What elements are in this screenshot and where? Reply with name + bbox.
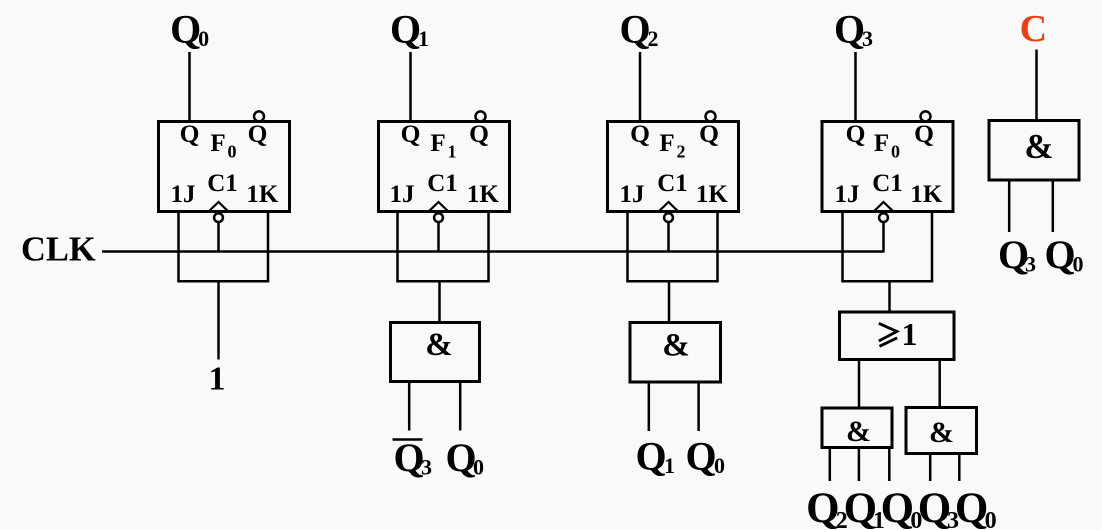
svg-text:1: 1: [418, 26, 429, 51]
svg-text:3: 3: [862, 26, 873, 51]
flip-flop F0 (JK): [822, 119, 953, 212]
svg-text:1: 1: [448, 142, 457, 162]
AND gate G1 (feeds F1): [391, 323, 480, 382]
svg-text:0: 0: [473, 455, 484, 480]
wire J-K tie bar of F1: [396, 280, 490, 283]
svg-text:1J: 1J: [835, 181, 860, 208]
wire G2 input Q0: [697, 382, 700, 431]
wire 1K of F2 down: [716, 212, 719, 282]
svg-text:0: 0: [985, 508, 997, 530]
wire 1K of F0 down: [931, 212, 934, 282]
svg-text:1: 1: [902, 316, 918, 352]
node Q0 label (bottom input): [881, 485, 923, 530]
svg-text:0: 0: [198, 26, 209, 51]
clock inversion bubble of F2: [664, 213, 673, 222]
clock inversion bubble of F0: [214, 213, 223, 222]
svg-text:1: 1: [209, 361, 226, 398]
node Q1: [390, 7, 429, 52]
wire CLK bus: [102, 250, 885, 253]
svg-text:0: 0: [714, 453, 725, 478]
wire Q3 output to flip-flop F0: [854, 52, 857, 122]
flip-flop F0 (JK): [159, 119, 290, 212]
node Q3 label (bottom input): [918, 485, 959, 530]
svg-text:C1: C1: [872, 170, 903, 197]
svg-text:1K: 1K: [246, 181, 279, 208]
svg-text:1K: 1K: [467, 181, 500, 208]
svg-text:Q: Q: [390, 7, 421, 52]
svg-text:Q: Q: [881, 485, 914, 530]
svg-text:1J: 1J: [171, 181, 196, 208]
svg-text:C1: C1: [657, 170, 688, 197]
svg-text:1K: 1K: [696, 181, 729, 208]
svg-text:Q: Q: [619, 7, 650, 52]
wire C1 of F0 to CLK line: [882, 223, 885, 252]
svg-text:1J: 1J: [390, 181, 415, 208]
wire G5 input Q0: [958, 454, 961, 482]
svg-text:Q: Q: [914, 119, 934, 148]
wire G6 input Q0: [1052, 180, 1055, 232]
wire J-K tie bar of F0: [841, 280, 933, 283]
svg-text:1: 1: [664, 453, 675, 478]
wire C1 of F1 to CLK line: [437, 223, 440, 252]
wire 1K of F1 down: [487, 212, 490, 282]
node Q0: [170, 7, 209, 52]
wire G1 input Q3-bar: [408, 382, 411, 431]
svg-text:&: &: [662, 328, 690, 364]
svg-text:0: 0: [228, 142, 237, 162]
node CLK label: [21, 231, 96, 269]
svg-text:&: &: [1024, 127, 1053, 166]
inversion bubble on Q-bar of F2: [706, 111, 716, 121]
svg-text:1J: 1J: [620, 181, 645, 208]
wire C output from G6: [1035, 50, 1038, 121]
AND gate G5 (Q3 Q0): [906, 408, 977, 454]
wire AND gate output to F1 J-K: [438, 281, 441, 324]
AND gate G6 (carry C = Q3 Q0): [989, 121, 1079, 181]
svg-text:Q: Q: [630, 119, 650, 148]
svg-text:Q: Q: [846, 119, 866, 148]
svg-text:F: F: [430, 130, 445, 157]
wire G3 input left (from G4): [858, 360, 861, 410]
node Q2 label (bottom input): [806, 485, 848, 530]
svg-text:Q: Q: [170, 7, 201, 52]
wire C1 of F0 to CLK line: [217, 223, 220, 252]
node C (carry output): [1020, 8, 1047, 50]
svg-text:Q: Q: [834, 7, 865, 52]
wire 1J of F0 down: [841, 212, 844, 282]
svg-text:3: 3: [421, 455, 432, 480]
wire J-K tie bar of F2: [626, 280, 719, 283]
inversion bubble on Q-bar of F0: [254, 111, 264, 121]
svg-text:Q: Q: [445, 435, 476, 480]
node Q0 label (bottom input): [955, 485, 997, 530]
svg-text:Q: Q: [955, 485, 988, 530]
svg-text:CLK: CLK: [21, 231, 96, 269]
inversion bubble on Q-bar of F1: [476, 111, 486, 121]
wire 1J of F0 down: [177, 212, 180, 282]
wire Q2 output to flip-flop F2: [639, 52, 642, 122]
wire G2 input Q1: [648, 382, 651, 431]
svg-text:1K: 1K: [910, 181, 943, 208]
svg-text:&: &: [846, 415, 871, 448]
wire G4 input Q2: [829, 448, 832, 482]
node Q3 label (G6 input): [998, 232, 1036, 277]
flip-flop F2 (JK): [608, 119, 739, 212]
wire constant 1 input of F0: [217, 281, 220, 359]
node Q3: [834, 7, 873, 52]
AND gate G2 (feeds F2): [630, 323, 721, 383]
wire G5 input Q3: [929, 454, 932, 482]
svg-text:Q: Q: [401, 119, 421, 148]
svg-text:0: 0: [1073, 252, 1084, 277]
node Q0 label (G6 input): [1044, 232, 1083, 277]
flip-flop F1 (JK): [379, 119, 510, 212]
svg-text:F: F: [210, 130, 225, 157]
svg-text:Q: Q: [248, 119, 268, 148]
svg-text:2: 2: [677, 142, 686, 162]
wire AND gate output to F2 J-K: [668, 281, 671, 324]
clock inversion bubble of F1: [434, 213, 443, 222]
svg-text:F: F: [659, 130, 674, 157]
wire G1 input Q0: [459, 382, 462, 431]
OR gate G3 (&#8805;1, feeds F0): [840, 312, 955, 360]
node Q1 label (bottom input): [844, 485, 885, 530]
node Q3-bar label: [393, 435, 433, 480]
wire 1J of F1 down: [396, 212, 399, 282]
clock inversion bubble of F0: [879, 213, 888, 222]
svg-text:Q: Q: [635, 434, 666, 479]
wire 1K of F0 down: [267, 212, 270, 282]
svg-text:Q: Q: [806, 485, 839, 530]
svg-text:Q: Q: [685, 434, 716, 479]
node Q1 label (G2 input): [635, 434, 675, 479]
svg-text:&: &: [929, 416, 954, 449]
wire G4 input Q1: [858, 448, 861, 482]
wire G4 input Q0: [888, 448, 891, 482]
svg-text:0: 0: [891, 142, 900, 162]
wire OR gate output to F0 J-K: [888, 281, 891, 313]
node Q2: [619, 7, 658, 52]
wire J-K tie bar of F0: [177, 280, 269, 283]
svg-text:C: C: [1020, 8, 1047, 50]
value label 1 (constant logic 1): [209, 361, 226, 398]
svg-text:Q: Q: [393, 435, 424, 480]
svg-text:F: F: [874, 130, 889, 157]
inversion bubble on Q-bar of F0: [921, 111, 931, 121]
wire G6 input Q3: [1008, 180, 1011, 232]
svg-text:C1: C1: [207, 170, 238, 197]
AND gate G4 (Q2 Q1 Q0): [822, 408, 892, 448]
svg-text:3: 3: [1025, 252, 1036, 277]
svg-text:Q: Q: [180, 119, 200, 148]
svg-text:Q: Q: [1044, 232, 1075, 277]
svg-text:C1: C1: [427, 170, 458, 197]
wire C1 of F2 to CLK line: [667, 223, 670, 252]
wire Q0 output to flip-flop F0: [188, 52, 191, 122]
svg-text:Q: Q: [469, 119, 489, 148]
svg-text:Q: Q: [699, 119, 719, 148]
wire 1J of F2 down: [626, 212, 629, 282]
svg-text:2: 2: [648, 26, 659, 51]
svg-text:&: &: [425, 327, 453, 363]
wire Q1 output to flip-flop F1: [409, 52, 412, 122]
node Q0 label (G2 input): [685, 434, 725, 479]
wire G3 input right (from G5): [938, 360, 941, 410]
node Q0 label (G1 input): [445, 435, 484, 480]
